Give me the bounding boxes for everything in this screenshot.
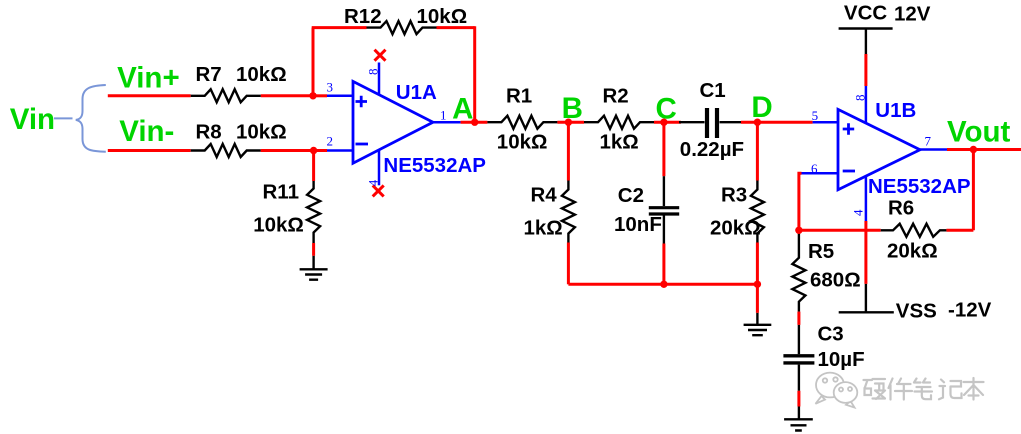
svg-text:R1: R1 [506, 85, 532, 108]
wire R1 to B [557, 121, 584, 124]
VSS bar [839, 311, 894, 313]
svg-text:0.22µF: 0.22µF [680, 138, 744, 161]
svg-text:NE5532AP: NE5532AP [868, 175, 971, 198]
U1B pin 7 stub [920, 148, 947, 151]
svg-text:10kΩ: 10kΩ [417, 5, 468, 28]
svg-text:10µF: 10µF [818, 348, 865, 371]
U1B pin 8 stub [865, 86, 868, 123]
output wire red [947, 148, 1021, 151]
branch B vertical [567, 122, 570, 180]
svg-text:12V: 12V [894, 3, 931, 26]
wire VCC red [864, 54, 867, 86]
brace [76, 85, 106, 152]
svg-text:R5: R5 [808, 240, 834, 263]
VCC bar [839, 27, 893, 29]
svg-text:R8: R8 [196, 121, 222, 144]
wire Vout vertical [972, 150, 975, 231]
junction node A [471, 119, 478, 126]
wire pin6 corner down [799, 173, 802, 230]
U1A pin 4 stub [378, 150, 381, 185]
svg-text:20kΩ: 20kΩ [710, 216, 761, 239]
svg-text:R7: R7 [196, 63, 222, 86]
main row wire A-B [461, 121, 488, 124]
wire C3 to ground [797, 391, 800, 407]
svg-text:5: 5 [812, 108, 819, 123]
wire R11 top [312, 151, 315, 182]
svg-text:Vin-: Vin- [119, 115, 174, 148]
svg-text:R3: R3 [721, 183, 747, 206]
junction R5 top [795, 227, 802, 234]
U1A pin 2 stub [314, 149, 327, 152]
junction pin2 [310, 147, 317, 154]
U1B pin 4 stub [865, 176, 868, 221]
branch R5 vertical red top [797, 230, 800, 233]
svg-text:6: 6 [811, 161, 818, 176]
svg-text:10kΩ: 10kΩ [236, 63, 287, 86]
wire R5 to C3 red [797, 312, 800, 325]
resistor R12 [367, 21, 437, 34]
junction node D [754, 119, 761, 126]
svg-text:1: 1 [440, 107, 447, 122]
wire D ground stub [756, 313, 758, 325]
R6 row wire left [799, 229, 881, 232]
wire R12 row left [312, 26, 367, 29]
watermark logo bubbles [816, 373, 858, 408]
svg-text:C3: C3 [818, 323, 844, 346]
wire pin4 down red [864, 221, 867, 284]
junction rail C [660, 281, 667, 288]
ground below R11 [300, 269, 328, 279]
svg-text:4: 4 [366, 179, 381, 186]
svg-text:-12V: -12V [948, 299, 992, 322]
svg-text:R11: R11 [263, 181, 299, 204]
wire C1 to D to U1B pin5 [741, 121, 813, 124]
junction node C [660, 119, 667, 126]
junction node B [565, 119, 572, 126]
junction rail D [754, 281, 761, 288]
svg-text:NE5532AP: NE5532AP [383, 154, 486, 177]
branch D vertical [756, 122, 759, 180]
U1A pin 3 stub [313, 94, 327, 97]
svg-text:10kΩ: 10kΩ [236, 121, 287, 144]
wire feedback right vertical [473, 26, 476, 122]
svg-text:8: 8 [366, 69, 381, 76]
U1A pin 1 stub [433, 121, 461, 124]
svg-text:C1: C1 [700, 79, 726, 102]
U1A pin 8 stub [378, 63, 381, 95]
wire R7 to pin3 junction [261, 94, 313, 97]
junction Vout [970, 146, 977, 153]
wire Vin- to R8 [108, 149, 191, 152]
R6 row wire right [946, 229, 973, 232]
svg-text:Vout: Vout [947, 115, 1011, 148]
svg-text:VSS: VSS [896, 300, 937, 323]
ground below C3 [784, 419, 813, 430]
svg-text:1kΩ: 1kΩ [524, 216, 563, 239]
wire R11 to ground [312, 243, 315, 256]
svg-text:R2: R2 [603, 85, 629, 108]
wire R8 to pin2 junction [261, 149, 314, 152]
branch C vertical [662, 122, 665, 176]
op-amp U1A [353, 81, 433, 163]
svg-text:A: A [452, 92, 473, 125]
svg-text:R4: R4 [531, 183, 558, 206]
svg-text:7: 7 [925, 134, 932, 149]
brace connector from Vin [54, 117, 73, 119]
svg-text:R12: R12 [344, 5, 382, 28]
resistor R8 [191, 144, 261, 157]
svg-text:20kΩ: 20kΩ [887, 240, 938, 263]
svg-text:10kΩ: 10kΩ [497, 130, 548, 153]
svg-text:8: 8 [852, 95, 867, 102]
resistor R7 [191, 89, 261, 102]
capacitor C3 [783, 356, 814, 391]
svg-text:D: D [751, 91, 772, 124]
no-connect X pin 8 [375, 50, 386, 61]
resistor R1 [487, 116, 557, 129]
svg-text:VCC: VCC [844, 2, 887, 25]
svg-text:1kΩ: 1kΩ [600, 130, 639, 153]
ground below D branch [744, 325, 772, 335]
bottom rail [568, 283, 757, 286]
resistor R11 [307, 181, 320, 243]
U1B pin 5 stub [813, 121, 838, 124]
wire R12 row right [437, 26, 475, 29]
junction pin3 [309, 92, 316, 99]
wire R2 to C [654, 121, 681, 124]
svg-text:3: 3 [327, 79, 334, 94]
svg-text:U1B: U1B [875, 99, 916, 122]
op-amp U1B [838, 109, 920, 189]
capacitor C2 [649, 176, 679, 243]
svg-text:680Ω: 680Ω [810, 268, 861, 291]
resistor R5 [792, 233, 805, 312]
resistor R6 [881, 224, 947, 237]
watermark text 硬件笔记本 (approximated strokes) [864, 378, 984, 400]
svg-text:4: 4 [850, 209, 865, 216]
resistor R3 [751, 181, 764, 243]
wire feedback left vertical [312, 28, 315, 97]
svg-text:R6: R6 [888, 197, 914, 220]
svg-text:U1A: U1A [396, 81, 437, 104]
svg-text:Vin: Vin [10, 103, 55, 136]
wire Vin+ to R7 [108, 94, 191, 97]
svg-text:B: B [562, 92, 583, 125]
capacitor C1 [679, 108, 742, 138]
resistor R2 [584, 116, 654, 129]
svg-text:10kΩ: 10kΩ [253, 213, 304, 236]
svg-text:Vin+: Vin+ [117, 62, 180, 95]
svg-text:2: 2 [327, 133, 334, 148]
resistor R4 [562, 181, 575, 243]
svg-text:10nF: 10nF [614, 213, 662, 236]
U1B pin 6 stub [801, 172, 838, 175]
no-connect X pin 4 [373, 185, 384, 196]
svg-text:C2: C2 [618, 184, 644, 207]
